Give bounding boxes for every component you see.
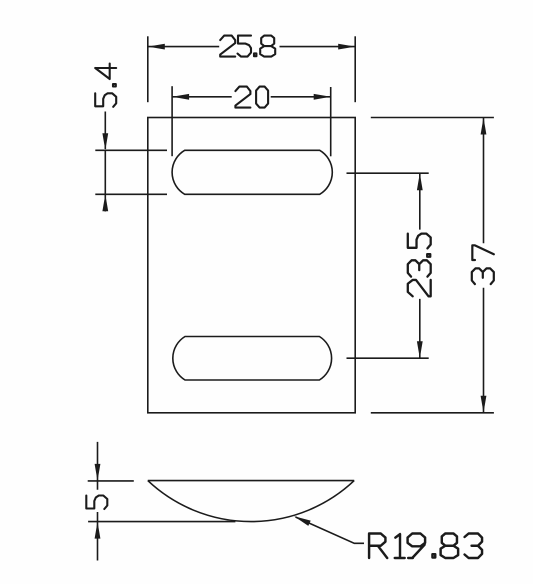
dimension 23.5: arrow top (pointing up) [417, 173, 423, 190]
dimension 37: arrow bottom (pointing down) [481, 396, 487, 413]
dimension 37: extension line bottom [371, 412, 494, 414]
dimension 20: dimension line [172, 96, 331, 98]
slot 2 (bottom slotted hole) [173, 337, 332, 381]
bottom view: concave arc R19.83 [148, 481, 354, 522]
dimension 23.5: extension line top (slot1 centerline) [347, 172, 429, 174]
dimension 25.8: arrow left [148, 44, 165, 50]
front view: main rectangle outline [148, 118, 355, 413]
dimension 23.5: text (rotated) [408, 234, 431, 297]
dimension 37: extension line top [371, 117, 494, 119]
dimension 5.4: arrow bottom (pointing up) [102, 194, 108, 211]
dimension 23.5: extension line bottom (slot2 centerline) [347, 357, 429, 359]
dimension 25.8: extension line right [354, 36, 356, 102]
dimension 25.8: extension line left [147, 36, 149, 102]
dimension 5: dimension line segments [97, 442, 99, 561]
leader arrow [294, 516, 311, 526]
dimension 5: arrow top (pointing down) [95, 464, 101, 481]
dimension 20: extension line right [330, 87, 332, 156]
dimension 20: arrow right [314, 94, 331, 100]
dimension 20: extension line left [171, 86, 173, 156]
dimension 5.4: dimension line segments [104, 112, 106, 212]
dimension 5: arrow bottom (pointing up) [95, 522, 101, 539]
dimension 25.8: arrow right [338, 44, 355, 50]
dimension 5: extension line top [88, 480, 134, 482]
dimension 20: arrow left [172, 94, 189, 100]
dimension 23.5: arrow bottom (pointing down) [417, 341, 423, 358]
dimension 5.4: arrow top (pointing down) [102, 133, 108, 150]
dimension 5.4: extension line top [95, 149, 167, 151]
leader line for R19.83 [296, 517, 365, 543]
dimension 5.4: text (rotated) [95, 64, 116, 107]
bottom view: top edge line [148, 480, 354, 482]
dimension 20: text [235, 87, 268, 108]
dimension 25.8: text [220, 36, 275, 57]
radius label R19.83 [369, 534, 482, 559]
dimension 5.4: extension line bottom [95, 193, 167, 195]
dimension 37: text (rotated) [472, 245, 494, 284]
dimension 25.8: dimension line [148, 46, 355, 48]
dimension 5: extension line bottom [88, 521, 235, 523]
dimension 5: text (rotated) [86, 496, 107, 510]
dimension 23.5: dimension line segments [419, 173, 421, 358]
dimension 37: dimension line segments [483, 118, 485, 413]
dimension 37: arrow top (pointing up) [481, 118, 487, 135]
slot 1 (top slotted hole) [172, 150, 332, 194]
